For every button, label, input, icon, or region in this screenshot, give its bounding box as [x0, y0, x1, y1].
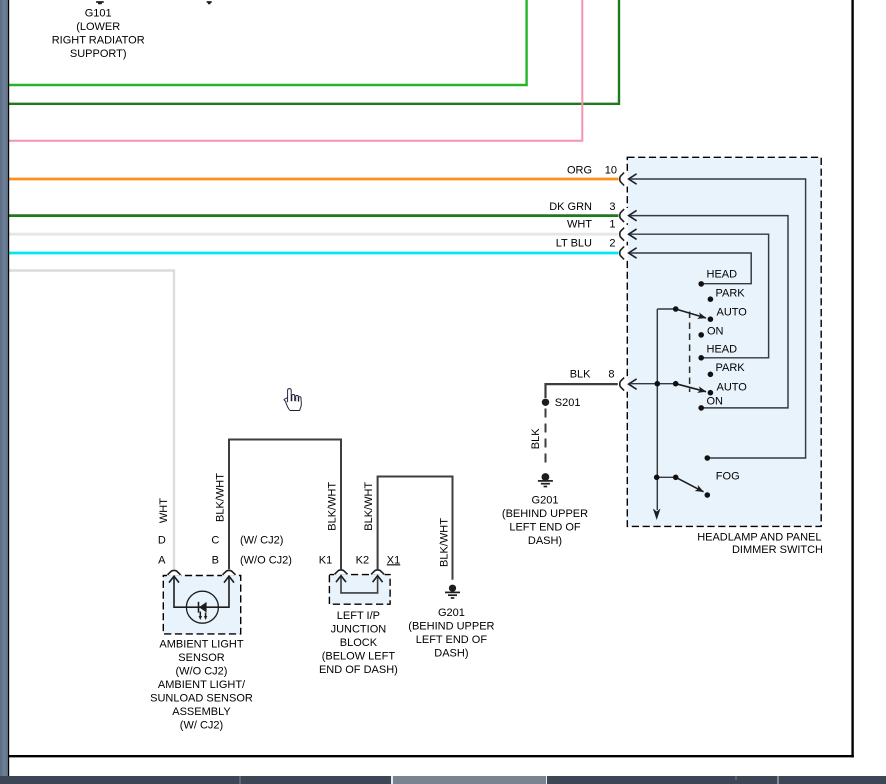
svg-text:B: B — [212, 554, 219, 566]
svg-text:HEAD: HEAD — [707, 344, 738, 356]
svg-text:S201: S201 — [555, 397, 581, 409]
svg-text:PARK: PARK — [716, 362, 746, 374]
svg-text:1: 1 — [609, 219, 615, 231]
svg-text:SUNLOAD SENSOR: SUNLOAD SENSOR — [150, 692, 253, 704]
svg-text:C: C — [211, 534, 219, 546]
svg-text:BLK/WHT: BLK/WHT — [439, 518, 451, 567]
svg-text:BLK/WHT: BLK/WHT — [215, 473, 227, 522]
svg-text:(BELOW LEFT: (BELOW LEFT — [322, 650, 396, 662]
svg-text:HEADLAMP AND PANEL: HEADLAMP AND PANEL — [697, 531, 821, 543]
svg-text:G201: G201 — [438, 607, 465, 619]
svg-text:DASH): DASH) — [528, 535, 562, 547]
svg-text:(LOWER: (LOWER — [76, 21, 120, 33]
svg-text:X1: X1 — [387, 554, 400, 566]
svg-text:G101: G101 — [85, 8, 112, 20]
svg-text:DK GRN: DK GRN — [549, 201, 592, 213]
svg-text:ORG: ORG — [567, 164, 592, 176]
svg-text:(BEHIND UPPER: (BEHIND UPPER — [502, 508, 588, 520]
svg-text:WHT: WHT — [567, 219, 592, 231]
svg-text:AUTO: AUTO — [717, 381, 748, 393]
svg-text:D: D — [158, 534, 166, 546]
svg-text:WHT: WHT — [158, 498, 170, 523]
svg-text:SUPPORT): SUPPORT) — [70, 48, 127, 60]
svg-text:ASSEMBLY: ASSEMBLY — [172, 706, 231, 718]
svg-text:DIMMER SWITCH: DIMMER SWITCH — [732, 544, 823, 556]
svg-text:JUNCTION: JUNCTION — [331, 623, 387, 635]
svg-text:(BEHIND UPPER: (BEHIND UPPER — [408, 621, 494, 633]
svg-text:AMBIENT LIGHT: AMBIENT LIGHT — [159, 638, 243, 650]
svg-text:RIGHT RADIATOR: RIGHT RADIATOR — [52, 35, 145, 47]
svg-text:END OF DASH): END OF DASH) — [319, 664, 398, 676]
svg-text:AUTO: AUTO — [717, 306, 748, 318]
svg-text:AMBIENT LIGHT/: AMBIENT LIGHT/ — [158, 679, 246, 691]
svg-text:FOG: FOG — [716, 471, 740, 483]
svg-text:ON: ON — [707, 325, 724, 337]
svg-text:K2: K2 — [356, 554, 369, 566]
svg-text:DASH): DASH) — [434, 648, 468, 660]
svg-text:10: 10 — [605, 164, 617, 176]
svg-text:SENSOR: SENSOR — [178, 652, 225, 664]
svg-text:LEFT I/P: LEFT I/P — [337, 610, 380, 622]
svg-text:HEAD: HEAD — [707, 269, 738, 281]
svg-text:A: A — [158, 554, 166, 566]
svg-text:ON: ON — [707, 396, 724, 408]
svg-text:8: 8 — [608, 369, 614, 381]
svg-text:LEFT END OF: LEFT END OF — [509, 521, 581, 533]
svg-text:BLOCK: BLOCK — [340, 637, 378, 649]
svg-text:2: 2 — [609, 238, 615, 250]
svg-text:G201: G201 — [532, 494, 559, 506]
svg-text:(W/ CJ2): (W/ CJ2) — [240, 534, 283, 546]
svg-text:K1: K1 — [319, 554, 332, 566]
svg-text:BLK: BLK — [570, 369, 591, 381]
svg-text:(W/ CJ2): (W/ CJ2) — [180, 719, 223, 731]
svg-text:(W/O CJ2): (W/O CJ2) — [176, 665, 228, 677]
svg-text:BLK: BLK — [530, 428, 542, 449]
svg-text:LT BLU: LT BLU — [556, 238, 592, 250]
svg-text:PARK: PARK — [716, 288, 746, 300]
svg-text:BLK/WHT: BLK/WHT — [327, 482, 339, 531]
svg-text:BLK/WHT: BLK/WHT — [363, 482, 375, 531]
svg-text:LEFT END OF: LEFT END OF — [416, 634, 488, 646]
svg-text:(W/O CJ2): (W/O CJ2) — [240, 554, 292, 566]
svg-text:3: 3 — [609, 201, 615, 213]
